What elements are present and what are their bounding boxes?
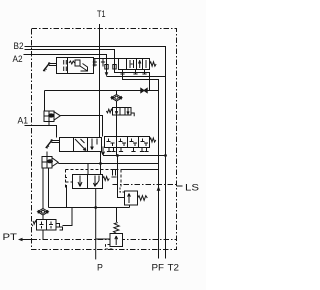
wire LS relief feed — [118, 156, 125, 198]
svg-text:PT: PT — [3, 232, 18, 242]
V3 pilot bracket — [65, 178, 68, 186]
svg-text:T2: T2 — [168, 263, 180, 273]
wire bus y205 — [49, 207, 130, 209]
svg-text:P: P — [97, 262, 103, 272]
wire V4 loop to bus — [63, 208, 73, 226]
V3 spring right — [103, 177, 110, 181]
junction dot P/bus205 — [94, 206, 97, 209]
LS line (dash-dot) — [113, 184, 177, 186]
svg-text:PF: PF — [152, 263, 165, 273]
check valve diamond D1 — [116, 91, 118, 95]
unloader valve V4 body — [37, 220, 57, 231]
valve V1 right cell spring and check — [69, 61, 75, 64]
wire top link V1 to bank2 — [94, 58, 119, 60]
wire B2 branch — [25, 50, 150, 91]
enclosure boundary (dash-dot) — [32, 29, 177, 250]
wire P line from V3 — [95, 189, 97, 260]
tick on stub x122 — [120, 73, 124, 75]
svg-text:A2: A2 — [13, 54, 23, 64]
box2b lower stubs — [107, 148, 116, 152]
V2 dividers — [74, 138, 88, 152]
V4 divider — [46, 220, 48, 231]
wire A1 — [25, 126, 57, 138]
bank2 cell symbols — [130, 60, 134, 68]
wire comp2 bottom right to bus — [48, 168, 50, 208]
box2b spring — [150, 138, 156, 142]
LS relief valve RV1 body — [125, 191, 138, 205]
wire bus y75 — [107, 76, 166, 78]
bank2 dividers — [127, 59, 143, 70]
port PF label — [152, 263, 165, 273]
arrow stub below V2 — [102, 147, 105, 156]
wire bus y78.5 to PF — [123, 70, 159, 259]
wire plug line y169 — [121, 169, 159, 171]
wire comp1 output — [60, 116, 102, 137]
wire bus LB1 — [45, 90, 159, 92]
wire A2 branch — [24, 55, 107, 73]
RV1 pilot dashes — [120, 187, 125, 192]
svg-text:LS: LS — [185, 183, 199, 193]
port PT label — [3, 232, 18, 242]
bank2 spring — [150, 62, 157, 66]
wire comp2 output — [58, 163, 158, 165]
svg-text:T1: T1 — [97, 9, 106, 19]
valve V3 body — [73, 175, 103, 189]
wire comp2 bottom left — [42, 168, 44, 209]
port LS label — [185, 183, 199, 193]
V3 divider — [87, 175, 89, 189]
check valve (bowtie) on LB1 — [141, 88, 147, 92]
directional valve V2 body — [60, 138, 102, 152]
RV1 arrow — [128, 194, 131, 204]
stub with ticks x94.3 — [93, 59, 97, 67]
V2 cell3 down arrow — [91, 139, 97, 150]
main relief spring — [114, 223, 120, 234]
main relief valve RV2 body — [110, 234, 123, 247]
arrow PT — [18, 238, 23, 242]
V3t divider — [120, 108, 125, 116]
wire bus1 y155 — [103, 155, 166, 157]
PT line (dash-dot) — [32, 239, 177, 241]
V3 cell1 symbol — [78, 176, 82, 187]
V3t drain notch — [131, 113, 134, 116]
crossbar ticks on stub A2 — [104, 65, 108, 70]
V4 cell symbols — [40, 222, 44, 229]
arrow up on PF at LS — [157, 186, 161, 191]
lever actuator of V2 — [51, 141, 59, 143]
plug symbol — [112, 170, 117, 178]
V3t spring left — [106, 109, 112, 113]
box2b blocked-port symbols — [107, 139, 115, 147]
junction dot bus1/LS-line — [116, 154, 119, 157]
wire V2 right port down — [100, 152, 102, 175]
RV2 drain dashes — [106, 245, 114, 250]
RV2 arrow — [115, 236, 118, 245]
stub with ticks x102.5b — [101, 59, 105, 67]
port A2 label — [13, 54, 23, 64]
valve V1 left cell orifice marks — [64, 60, 67, 71]
V4 spring left — [32, 221, 37, 226]
pilot valve V3t body — [113, 108, 132, 116]
pilot check comp1 — [44, 111, 54, 122]
arrow A2 branch down — [105, 72, 109, 76]
wire T1 vertical — [99, 24, 101, 138]
RV1 spring — [138, 196, 148, 201]
bank2 lower stubs — [133, 70, 146, 75]
port T1 label — [97, 9, 106, 19]
port B2 label — [14, 41, 24, 51]
port A1 label — [18, 115, 29, 125]
wire comp1 bottom — [48, 122, 50, 126]
wire V3 top port — [87, 164, 89, 175]
V3 cell2 symbol — [93, 176, 99, 187]
central valve V3 dashed enclosure — [66, 170, 122, 189]
svg-text:B2: B2 — [14, 41, 24, 51]
wire V3t down to bus1 — [116, 115, 118, 156]
port T2 label — [168, 263, 180, 273]
V2 cell2 crossed arrows — [75, 139, 86, 151]
crossbar ticks on stub B2 — [112, 65, 116, 70]
valve section box2b body — [105, 137, 150, 148]
junction dot bus1/T2 — [164, 154, 167, 157]
LS tick — [177, 185, 183, 187]
port P label — [97, 262, 103, 272]
lever actuator of V1 — [49, 64, 57, 66]
wire comp1 feed down — [44, 91, 46, 111]
V4 right step boxes — [56, 224, 63, 231]
wire PT short — [22, 239, 32, 241]
valve V1 divider — [67, 58, 69, 74]
wire B2 to T2 line — [25, 47, 166, 259]
svg-text:A1: A1 — [18, 115, 29, 125]
junction dot comp2 line — [99, 162, 102, 165]
wire relief feed — [116, 208, 118, 223]
wire V3 pilot drop — [66, 186, 68, 208]
directional valve V1 body — [57, 58, 94, 74]
V3t symbols — [115, 108, 117, 115]
wire P to RV2 — [96, 238, 111, 240]
box2b dividers — [117, 137, 139, 148]
wire V4 bottom drain — [42, 230, 44, 240]
valve bank2 body — [119, 59, 150, 70]
pilot check comp2 — [46, 152, 48, 157]
wire RV1 bottom — [129, 205, 131, 208]
check valve diamond D2 — [38, 209, 49, 216]
